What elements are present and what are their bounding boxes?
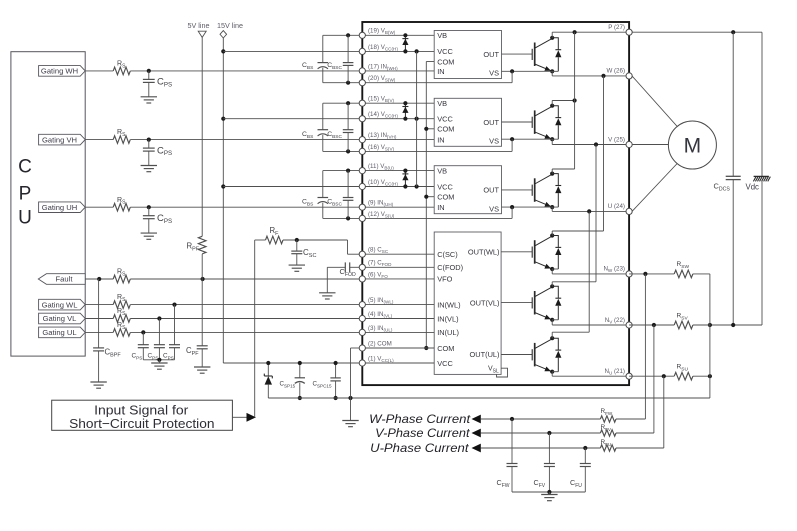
label RS (Gating WH) <box>117 61 126 70</box>
wire NV sense drop <box>616 325 654 433</box>
wire VS ext <box>323 216 363 220</box>
wire NW line <box>552 273 629 275</box>
wire Gating VH line <box>85 138 362 142</box>
svg-text:OUT(VL): OUT(VL) <box>470 298 500 307</box>
wire W to motor <box>632 76 679 128</box>
resistor RFW <box>600 416 616 422</box>
label CFU <box>570 478 582 489</box>
diode DBS (V) <box>402 101 408 121</box>
svg-text:M: M <box>684 135 702 158</box>
wire RSU out <box>693 325 712 378</box>
wire pin18 line <box>223 50 362 52</box>
wire W current line <box>481 417 601 421</box>
wire NV line <box>552 324 629 326</box>
wire gate VL <box>501 302 532 304</box>
5V line label <box>188 21 210 30</box>
label CPS (VL) <box>148 353 159 361</box>
wire 15V bus <box>221 38 359 363</box>
label CPS (UL) <box>132 353 143 361</box>
wire VB ext <box>323 101 363 105</box>
label RSU <box>677 364 689 373</box>
label CBS <box>302 62 313 71</box>
wire NU line <box>552 375 629 377</box>
resistor RSW <box>674 270 693 278</box>
wire Gating WH line <box>85 69 362 73</box>
flag Gating WL <box>39 299 86 310</box>
svg-text:5V line: 5V line <box>188 21 210 30</box>
flag Gating VL <box>39 313 86 324</box>
wire VS(V) line <box>362 150 512 152</box>
capacitor CPS (Gating VL) <box>154 319 165 348</box>
wire Q6 collector to U <box>552 211 589 338</box>
svg-text:Gating VH: Gating VH <box>42 135 77 144</box>
diode DBS (W) <box>402 33 408 53</box>
label RS (Gating UH) <box>117 197 126 206</box>
wire ground rail <box>268 396 710 400</box>
wire CFOD to ground <box>327 267 345 293</box>
wire COM bus <box>424 62 434 351</box>
ground CFOD <box>319 293 335 299</box>
wire Gating UL line <box>85 330 362 334</box>
wire pin10 line <box>223 186 362 188</box>
capacitor CFV <box>544 433 555 492</box>
wire VS ext <box>323 149 363 153</box>
flag Fault <box>38 274 85 285</box>
wire CPS common <box>143 348 174 363</box>
wire V phase line <box>552 142 629 146</box>
transistor Q6 (UL IGBT) <box>532 336 561 374</box>
svg-text:Fault: Fault <box>56 275 74 284</box>
svg-text:IN(UL): IN(UL) <box>437 328 459 337</box>
svg-text:NW (23): NW (23) <box>603 266 625 274</box>
15V line label <box>217 21 243 30</box>
module outline <box>362 22 629 385</box>
label CPS (Gating VH) <box>157 145 172 157</box>
resistor RS (Gating UH) <box>113 203 130 211</box>
svg-text:V (25): V (25) <box>608 136 625 143</box>
label CFW <box>497 478 510 489</box>
label V-Phase Current <box>375 426 470 440</box>
op-amp U2 HVIC V <box>434 98 501 146</box>
svg-text:15V line: 15V line <box>217 21 243 30</box>
svg-text:NU (21): NU (21) <box>604 368 625 376</box>
capacitor CBSC <box>343 103 354 151</box>
resistor RF <box>266 236 284 244</box>
capacitor CPS (Gating WL) <box>169 305 180 348</box>
resistor RS (Gating UL) <box>113 329 130 337</box>
capacitor CBS <box>318 171 329 219</box>
svg-text:OUT(WL): OUT(WL) <box>468 248 500 257</box>
wire Gating VL line <box>85 316 362 320</box>
wire VB ext <box>323 33 363 37</box>
svg-text:Gating UL: Gating UL <box>42 328 76 337</box>
wire IN(UH) int <box>362 206 434 208</box>
wire Gating WL line <box>85 303 362 307</box>
wire Q5 collector to V <box>552 145 596 287</box>
ground CBPF <box>90 382 106 388</box>
wire V current line <box>481 431 601 435</box>
svg-text:(2) COM: (2) COM <box>368 340 392 347</box>
svg-text:VCC: VCC <box>437 115 453 124</box>
label CFOD <box>340 267 357 278</box>
capacitor CPS (Gating UL) <box>138 332 149 347</box>
svg-text:Gating VL: Gating VL <box>43 314 77 323</box>
wire gate UH <box>502 189 533 191</box>
resistor RS (Gating WH) <box>113 67 130 75</box>
wire VS(W) line <box>362 82 512 84</box>
svg-text:U (24): U (24) <box>608 203 625 210</box>
wire Q6 emitter to NU <box>551 372 553 377</box>
wire IN(UL) int <box>362 331 434 333</box>
capacitor CPS (Gating UH) <box>143 207 155 233</box>
svg-text:P: P <box>19 184 32 205</box>
wire VB(U) int <box>362 170 434 172</box>
input signal box <box>52 400 233 430</box>
svg-text:OUT(UL): OUT(UL) <box>470 350 500 359</box>
wire Q5 emitter to NV <box>551 320 553 325</box>
capacitor CDCS <box>726 32 741 325</box>
capacitor CBSC <box>343 35 354 82</box>
wire P rail <box>552 30 762 34</box>
wire W phase line <box>552 74 629 78</box>
wire CF common <box>512 490 585 495</box>
wire gate WL <box>501 251 532 253</box>
label RS (Gating UL) <box>117 322 126 331</box>
wire IN(WH) int <box>362 70 434 72</box>
svg-text:VCC: VCC <box>437 359 453 368</box>
capacitor CPS (Gating VH) <box>143 140 155 166</box>
label RS (Gating WL) <box>117 294 126 303</box>
svg-text:IN: IN <box>437 136 444 145</box>
wire gate VH <box>502 121 533 123</box>
svg-text:NV (22): NV (22) <box>605 317 625 325</box>
wire pin2 to ground <box>351 348 363 421</box>
wire U to motor <box>632 162 679 211</box>
svg-text:Gating WH: Gating WH <box>41 67 78 76</box>
arrow V current <box>472 429 481 438</box>
label CPS (Gating WH) <box>157 77 172 89</box>
wire VCC(L) int <box>362 362 434 364</box>
transistor Q1 (WH IGBT) <box>502 36 562 83</box>
wire Q3 collector rail <box>552 169 574 174</box>
svg-text:VCC: VCC <box>437 182 453 191</box>
wire gate UL <box>501 354 532 356</box>
flag Gating WH <box>39 66 86 77</box>
svg-text:OUT: OUT <box>483 50 499 59</box>
svg-text:VS: VS <box>489 69 499 78</box>
ground CPS (Gating VH) <box>141 166 157 172</box>
wire VS(U) line <box>362 217 512 219</box>
capacitor CFW <box>507 419 518 492</box>
wire Q4 emitter to NW <box>551 269 553 274</box>
svg-text:COM: COM <box>437 193 454 202</box>
ground CPF <box>194 367 210 373</box>
wire Q2 collector rail <box>552 98 577 105</box>
resistor RPF <box>198 236 206 254</box>
svg-text:P (27): P (27) <box>608 24 625 31</box>
svg-text:Gating WL: Gating WL <box>42 300 78 309</box>
label CSPC15 <box>313 381 332 389</box>
flag Gating UL <box>39 327 86 338</box>
svg-text:OUT: OUT <box>483 118 499 127</box>
resistor RS (Gating VL) <box>113 315 130 323</box>
wire VCC(W) int <box>362 49 434 53</box>
wire VB(V) int <box>362 102 434 104</box>
wire gate WH <box>502 53 533 55</box>
label RFU <box>601 439 612 447</box>
label RSW <box>677 261 690 270</box>
wire RPF to fault <box>201 254 203 279</box>
svg-text:VB: VB <box>437 166 447 175</box>
resistor RSU <box>674 372 693 380</box>
label CPS (Gating UH) <box>157 213 172 225</box>
svg-text:VFO: VFO <box>437 275 452 284</box>
ground CPS common <box>151 363 167 369</box>
label RFW <box>601 408 613 416</box>
op-amp U4 LVIC <box>434 232 507 377</box>
label CBSC <box>327 62 342 71</box>
motor M <box>668 121 716 169</box>
arrow W current <box>472 415 481 424</box>
flag Gating VH <box>39 134 86 145</box>
svg-text:C(SC): C(SC) <box>437 250 458 259</box>
label RSV <box>677 313 689 322</box>
wire 5V bus <box>201 37 203 236</box>
label RS (fault) <box>117 269 126 278</box>
module left pins <box>359 32 365 366</box>
label CDCS <box>714 182 731 193</box>
capacitor CBPF <box>93 279 104 382</box>
wire N junction line <box>708 323 762 327</box>
zener diode DZ <box>264 361 272 398</box>
wire VCC(V) int <box>362 117 434 121</box>
wire VCC bus int <box>416 51 418 186</box>
capacitor CPS (Gating WH) <box>143 71 155 97</box>
wire IN(VH) int <box>362 139 434 141</box>
label CSP15 <box>280 381 296 389</box>
svg-text:W (26): W (26) <box>606 68 625 75</box>
wire fault line <box>85 277 362 281</box>
label CBSC <box>327 131 342 140</box>
wire pin14 line <box>223 118 362 120</box>
resistor RFU <box>600 445 616 451</box>
wire CSC int <box>362 253 434 255</box>
ground CSC <box>289 265 305 271</box>
transistor Q5 (VL IGBT) <box>532 284 561 322</box>
wire VCC(U) int <box>362 184 434 188</box>
label CBSC <box>327 199 342 208</box>
label CBS <box>302 131 313 140</box>
resistor RS (Gating VH) <box>113 136 130 144</box>
svg-text:U-Phase Current: U-Phase Current <box>370 441 469 455</box>
svg-text:Gating UH: Gating UH <box>42 203 77 212</box>
capacitor CSC <box>291 240 302 265</box>
capacitor CPF <box>197 279 208 367</box>
CPU box <box>11 52 85 356</box>
wire RSW out <box>693 274 710 325</box>
transistor Q4 (WL IGBT) <box>532 233 561 271</box>
svg-text:Short−Circuit Protection: Short−Circuit Protection <box>69 416 214 431</box>
label U-Phase Current <box>370 441 469 455</box>
svg-text:Vdc: Vdc <box>746 183 760 192</box>
label RS (Gating VL) <box>117 308 126 317</box>
label CFV <box>534 478 546 489</box>
wire COM int <box>362 347 434 349</box>
wire input to RF <box>255 240 266 417</box>
input signal text <box>69 403 214 431</box>
svg-text:IN: IN <box>437 67 444 76</box>
15V line terminal <box>220 31 227 38</box>
resistor RS (fault) <box>113 275 130 283</box>
svg-text:VS: VS <box>489 136 499 145</box>
wire VB ext <box>323 169 363 173</box>
svg-text:C: C <box>18 157 32 178</box>
ground COM <box>342 421 358 427</box>
svg-text:OUT: OUT <box>483 186 499 195</box>
label W-Phase Current <box>369 412 471 426</box>
op-amp U1 HVIC W <box>434 31 501 79</box>
capacitor CBS <box>318 35 329 82</box>
svg-text:VS: VS <box>489 204 499 213</box>
transistor Q2 (VH IGBT) <box>502 104 562 152</box>
svg-text:W-Phase Current: W-Phase Current <box>369 412 471 426</box>
wire NV ext <box>629 323 674 327</box>
svg-text:IN: IN <box>437 203 444 212</box>
wire P bus vertical <box>574 32 576 169</box>
capacitor CSPC15 <box>330 361 340 400</box>
svg-text:VB: VB <box>437 31 447 40</box>
op-amp U3 HVIC U <box>434 166 501 214</box>
svg-text:C(FOD): C(FOD) <box>437 263 463 272</box>
wire NU ext <box>629 374 674 378</box>
wire V to motor <box>632 144 668 146</box>
label RF <box>270 226 280 237</box>
label CPF <box>186 346 199 357</box>
wire NU sense drop <box>616 376 664 448</box>
ground CF <box>541 495 557 501</box>
label RS (Gating VH) <box>117 129 126 138</box>
svg-text:IN(VL): IN(VL) <box>437 314 458 323</box>
label CBPF <box>105 348 122 359</box>
ground CPS (Gating UH) <box>141 233 157 239</box>
wire VS ext <box>323 81 363 85</box>
wire RSV out <box>693 324 710 326</box>
arrow U current <box>472 444 481 453</box>
module right pin labels <box>603 24 625 376</box>
wire CFOD int <box>362 266 434 268</box>
wire NW ext <box>629 272 674 276</box>
diode DBS (U) <box>402 169 408 189</box>
battery Vdc symbol <box>753 32 770 325</box>
CPU label <box>18 157 32 229</box>
wire input arrow <box>232 413 256 422</box>
label RFV <box>601 424 612 432</box>
wire IN(VL) int <box>362 318 434 320</box>
resistor RS (Gating WL) <box>113 301 130 309</box>
label CBS <box>302 199 313 208</box>
wire VB(W) int <box>362 34 434 36</box>
svg-text:VCC: VCC <box>437 47 453 56</box>
capacitor CFU <box>580 448 591 492</box>
module right pins <box>626 29 632 379</box>
svg-text:COM: COM <box>437 125 454 134</box>
wire rail to shunt bus <box>709 376 711 398</box>
wire pin7 line <box>350 266 363 268</box>
svg-text:IN(WL): IN(WL) <box>437 300 460 309</box>
wire NW sense drop <box>616 274 645 419</box>
capacitor CSP15 <box>295 361 305 400</box>
module left pin labels <box>368 28 398 363</box>
capacitor CBSC <box>343 171 354 219</box>
label Vdc <box>746 183 760 192</box>
svg-text:V-Phase Current: V-Phase Current <box>375 426 470 440</box>
flag Gating UH <box>39 202 86 213</box>
wire VFO int <box>362 278 434 280</box>
wire IN(WL) int <box>362 304 434 306</box>
resistor RSV <box>674 321 693 329</box>
ground CPS (Gating WH) <box>141 97 157 103</box>
label CSC <box>303 248 316 259</box>
wire Gating UH line <box>85 205 362 209</box>
capacitor CFOD <box>345 262 349 272</box>
transistor Q3 (UH IGBT) <box>502 172 562 219</box>
resistor RFV <box>600 430 616 436</box>
wire RF to pin8 <box>283 238 362 254</box>
wire Q1 collector to P <box>551 32 553 38</box>
svg-text:VB: VB <box>437 99 447 108</box>
wire U current line <box>481 446 601 450</box>
svg-text:U: U <box>18 208 32 229</box>
wire U phase line <box>552 209 629 213</box>
5V line terminal <box>198 31 206 37</box>
svg-text:COM: COM <box>437 344 454 353</box>
wire Q4 collector to W <box>552 76 603 236</box>
label CPS (WL) <box>163 353 174 361</box>
capacitor CBS <box>318 103 329 151</box>
label RPF <box>187 242 200 253</box>
svg-text:COM: COM <box>437 57 454 66</box>
